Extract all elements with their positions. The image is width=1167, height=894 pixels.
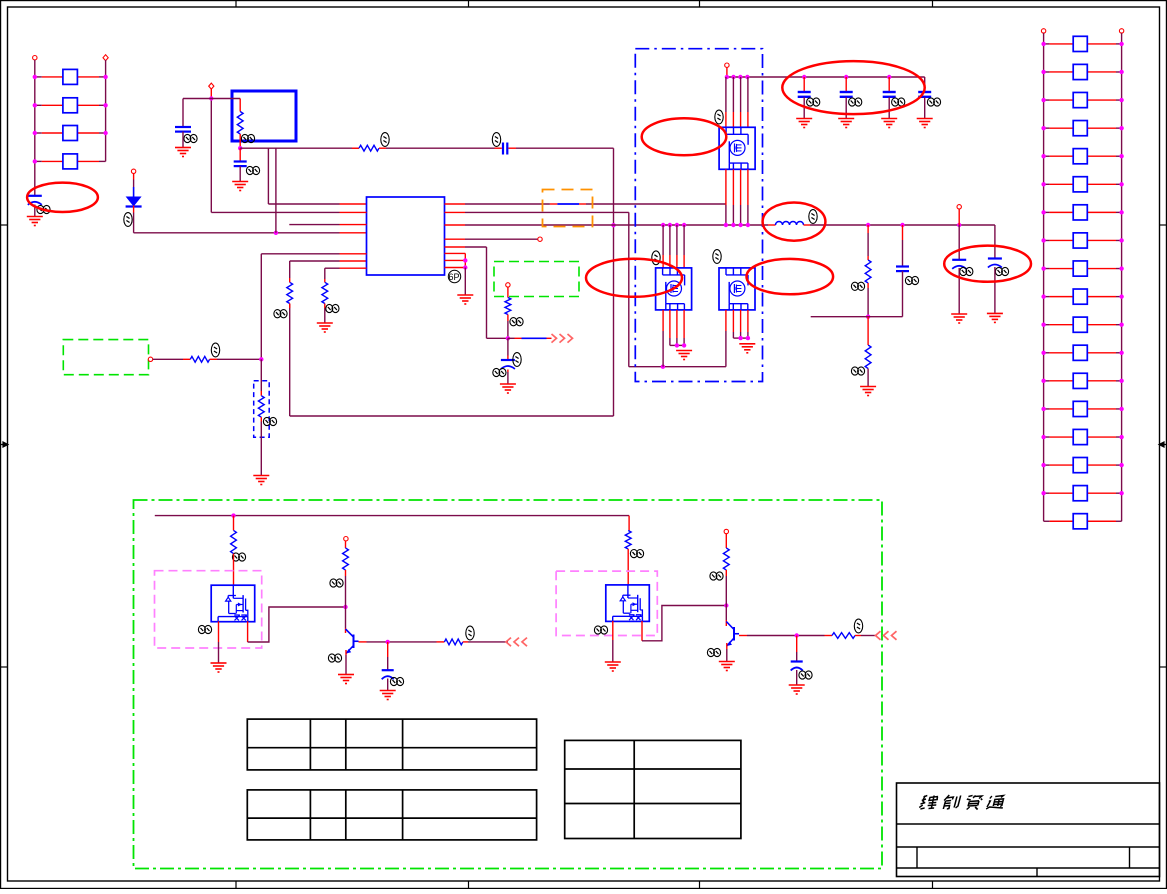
svg-text:6P: 6P [449,272,460,282]
